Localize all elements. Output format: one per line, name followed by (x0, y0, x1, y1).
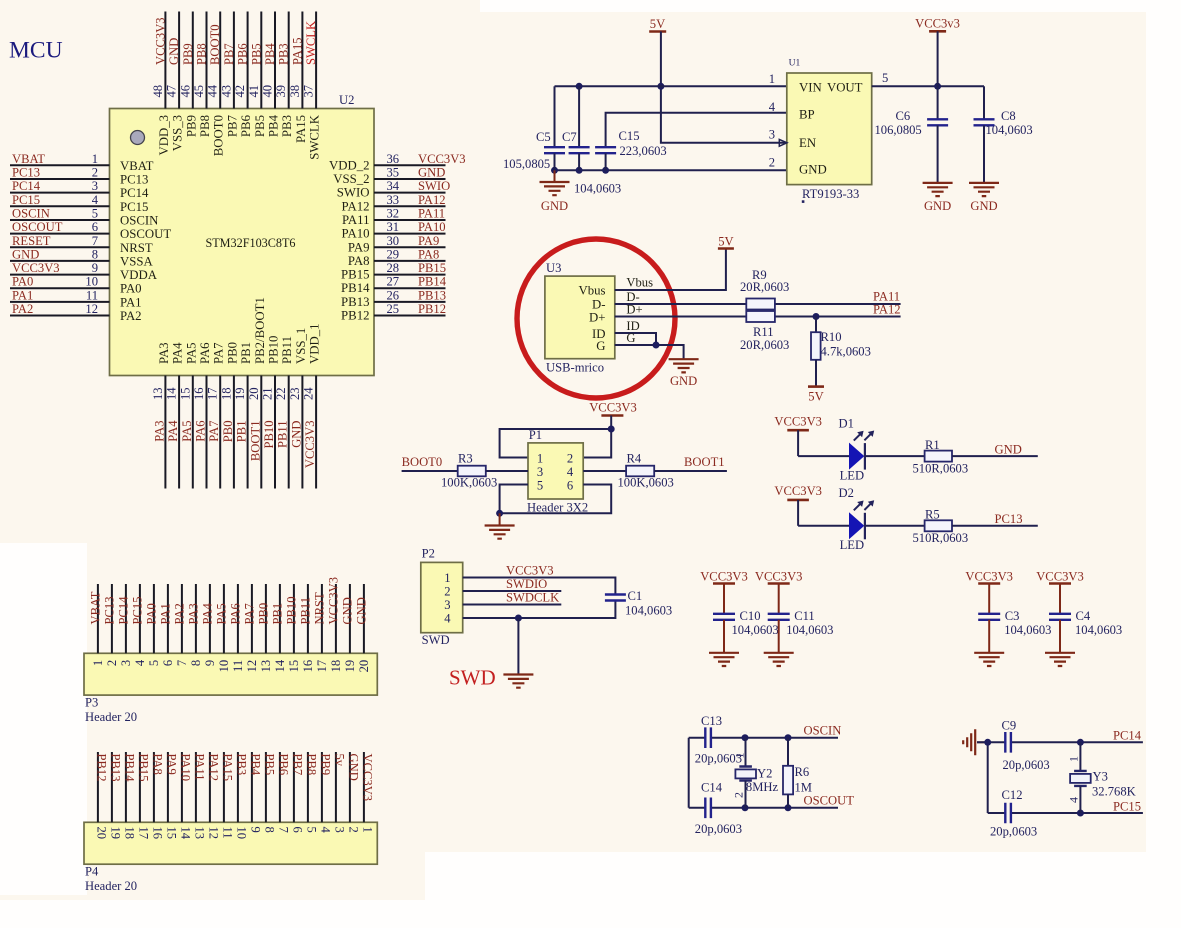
P4 pin 7 wire + net PB6 (276, 752, 290, 833)
svg-text:VBAT: VBAT (88, 591, 102, 624)
wire P2 pin1 VCC3V3 to C1 (463, 578, 616, 595)
svg-text:12: 12 (206, 827, 220, 840)
P3 pin 17 wire + net NRST (312, 584, 329, 672)
svg-text:PB7: PB7 (290, 754, 304, 776)
U2 pin 28 PB15 wire + net PB15 (341, 261, 446, 282)
ground (USB) (669, 359, 699, 388)
svg-text:VCC3V3: VCC3V3 (1036, 570, 1084, 584)
node D+/R10 (813, 313, 820, 320)
svg-text:U1: U1 (789, 59, 801, 69)
svg-text:8MHz: 8MHz (746, 780, 779, 794)
svg-text:PB5: PB5 (262, 754, 276, 776)
svg-text:BOOT0: BOOT0 (402, 455, 443, 469)
svg-text:PA7: PA7 (242, 603, 256, 624)
P3 pin 13 wire + net PB0 (256, 584, 273, 672)
svg-text:PA4: PA4 (171, 342, 185, 364)
svg-text:2: 2 (567, 452, 573, 466)
svg-text:43: 43 (219, 85, 233, 98)
svg-text:C6: C6 (896, 109, 911, 123)
U2 pin 10 PA0 wire + net PA0 (10, 275, 142, 296)
svg-text:PA12: PA12 (342, 199, 370, 213)
svg-text:PA1: PA1 (120, 295, 142, 309)
P4 pin 13 wire + net PA11 (192, 752, 206, 839)
ground (C10) (709, 653, 739, 666)
wire BOOT0 to R3 (402, 470, 458, 472)
svg-text:PC13: PC13 (12, 165, 40, 179)
svg-text:33: 33 (387, 193, 400, 207)
svg-text:C10: C10 (740, 609, 761, 623)
svg-text:4: 4 (567, 465, 574, 479)
svg-text:PB15: PB15 (341, 268, 369, 282)
svg-text:G: G (626, 331, 635, 345)
U2 pin 15 PA5 wire + net PA5 (178, 342, 198, 488)
svg-text:PA6: PA6 (194, 421, 208, 442)
U2 pin 13 PA3 wire + net PA3 (151, 342, 171, 488)
svg-text:PB9: PB9 (181, 43, 195, 65)
svg-text:VCC3V3: VCC3V3 (418, 152, 466, 166)
svg-text:LED: LED (840, 469, 864, 483)
P3 pin 10 wire + net PA5 (214, 584, 231, 672)
svg-text:R11: R11 (753, 325, 774, 339)
svg-text:104,0603: 104,0603 (574, 182, 621, 196)
P4 pin 9 wire + net PB4 (248, 752, 262, 833)
wire BP (pin4) (606, 113, 787, 147)
ground (P2) (503, 675, 533, 688)
svg-text:7: 7 (276, 827, 290, 833)
svg-text:R1: R1 (925, 438, 940, 452)
svg-text:PA4: PA4 (200, 603, 214, 625)
svg-text:PB0: PB0 (221, 421, 235, 443)
ground under C5 (540, 170, 570, 213)
wire 5V to VIN and EN (661, 32, 787, 143)
U2 pin 2 PC13 wire + net PC13 (10, 165, 148, 186)
svg-text:5V: 5V (718, 235, 733, 249)
svg-text:P3: P3 (85, 696, 98, 710)
power VCC3V3 symbol (D2) (774, 484, 822, 526)
svg-text:G: G (596, 339, 605, 353)
wire Vbus (615, 249, 726, 291)
svg-text:3: 3 (537, 465, 543, 479)
svg-text:15: 15 (178, 387, 192, 400)
svg-text:OSCIN: OSCIN (120, 213, 158, 227)
U2 pin 44 BOOT0 wire + net BOOT0 (206, 12, 226, 157)
wire R4 to BOOT1 (654, 470, 727, 472)
svg-text:PA5: PA5 (214, 603, 228, 624)
svg-text:GND: GND (670, 374, 697, 388)
U2 pin 12 PA2 wire + net PA2 (10, 302, 142, 323)
power 5V symbol (649, 17, 666, 32)
svg-text:GND: GND (970, 199, 997, 213)
svg-text:PB4: PB4 (267, 114, 281, 137)
capacitor C6 (875, 86, 949, 183)
svg-text:PA11: PA11 (192, 754, 206, 781)
svg-text:104,0603: 104,0603 (986, 123, 1033, 137)
svg-text:19: 19 (108, 827, 122, 840)
U2 pin 38 PA15 wire + net PA15 (288, 12, 308, 143)
P4 pin 12 wire + net PA12 (206, 752, 220, 839)
svg-text:BOOT0: BOOT0 (212, 115, 226, 156)
svg-text:44: 44 (206, 84, 220, 97)
capacitor C12 (990, 788, 1037, 838)
svg-text:4.7k,0603: 4.7k,0603 (821, 345, 871, 359)
svg-text:PA10: PA10 (418, 220, 446, 234)
crystal Y3 32.768K (1067, 742, 1136, 813)
power 5V symbol (R10) (808, 387, 824, 404)
P3 pin 1 wire + net VBAT (88, 584, 105, 666)
node Y3 left (984, 739, 991, 746)
wire R5 to PC13 (952, 525, 1038, 527)
svg-text:PB3: PB3 (234, 754, 248, 776)
svg-text:VDD_1: VDD_1 (308, 323, 322, 364)
svg-text:PA12: PA12 (206, 754, 220, 782)
svg-text:PB1: PB1 (270, 603, 284, 625)
svg-text:GND: GND (289, 421, 303, 448)
svg-text:SWD: SWD (449, 666, 496, 690)
wire SWDIO (463, 590, 562, 592)
svg-text:29: 29 (387, 247, 400, 261)
svg-text:35: 35 (387, 165, 400, 179)
node C15 bottom (602, 167, 609, 174)
svg-text:PB15: PB15 (418, 261, 446, 275)
svg-text:PB12: PB12 (418, 302, 446, 316)
wire OSCOUT bottom rail (689, 807, 706, 809)
wire D1 to R1 (865, 455, 925, 457)
svg-text:PA0: PA0 (144, 603, 158, 624)
U2 pin 46 PB9 wire + net PB9 (178, 12, 198, 138)
svg-text:EN: EN (799, 136, 816, 150)
svg-text:7: 7 (175, 660, 189, 666)
svg-text:SWD: SWD (422, 633, 450, 647)
svg-text:4: 4 (769, 100, 776, 114)
P3 pin 18 wire + net VCC3V3 (326, 577, 343, 672)
svg-text:PB12: PB12 (341, 309, 369, 323)
P4 pin 15 wire + net PA9 (164, 752, 178, 839)
svg-text:PA0: PA0 (12, 275, 33, 289)
svg-text:GND: GND (340, 597, 354, 624)
svg-text:USB-mrico: USB-mrico (546, 361, 604, 375)
P3 pin 4 wire + net PC15 (130, 584, 147, 666)
U2 pin 11 PA1 wire + net PA1 (10, 288, 142, 309)
U2 pin 21 PB10 wire + net PB10 (261, 336, 281, 489)
svg-text:VCC3V3: VCC3V3 (755, 570, 803, 584)
power VCC3V3 symbol (C4) (1036, 570, 1084, 584)
led D2 (839, 486, 875, 552)
svg-text:16: 16 (301, 660, 315, 673)
capacitor C11 (768, 584, 834, 653)
svg-text:PC13: PC13 (102, 597, 116, 625)
svg-text:D2: D2 (839, 486, 854, 500)
svg-text:Vbus: Vbus (626, 275, 653, 289)
wire junction to ground (517, 618, 519, 675)
P3 pin 7 wire + net PA2 (172, 584, 189, 666)
svg-text:NRST: NRST (120, 241, 153, 255)
svg-text:RESET: RESET (12, 234, 51, 248)
svg-text:VSS_1: VSS_1 (294, 328, 308, 364)
svg-text:P4: P4 (85, 865, 99, 879)
capacitor C5 (503, 86, 565, 171)
U2 pin 24 VDD_1 wire + net VCC3V3 (302, 323, 322, 488)
svg-text:PB6: PB6 (276, 754, 290, 776)
svg-text:1M: 1M (795, 781, 813, 795)
svg-text:5V: 5V (808, 390, 823, 404)
U2 pin 17 PA7 wire + net PA7 (206, 342, 226, 489)
U2 pin 6 OSCOUT wire + net OSCOUT (10, 220, 171, 241)
P4 pin 20 wire + net PB12 (94, 752, 108, 839)
svg-text:14: 14 (273, 659, 287, 672)
svg-text:P2: P2 (422, 547, 435, 561)
svg-text:GND: GND (354, 597, 368, 624)
svg-text:SWCLK: SWCLK (304, 21, 318, 65)
resistor R11 (740, 311, 789, 352)
svg-text:C1: C1 (628, 589, 643, 603)
svg-text:PB6: PB6 (239, 114, 253, 137)
svg-text:U3: U3 (546, 261, 561, 275)
wire R3 to P1 pin3 (486, 470, 528, 472)
node R6 top (785, 734, 792, 741)
P3 pin 20 wire + net GND (354, 584, 371, 672)
wire D2 to R5 (865, 525, 925, 527)
svg-text:R6: R6 (795, 765, 810, 779)
svg-text:C12: C12 (1002, 788, 1023, 802)
svg-text:D+: D+ (589, 310, 605, 324)
svg-text:GND: GND (12, 247, 39, 261)
svg-text:9: 9 (203, 660, 217, 666)
svg-text:223,0603: 223,0603 (620, 144, 667, 158)
svg-text:4: 4 (92, 193, 99, 207)
svg-text:Vbus: Vbus (578, 283, 605, 297)
P3 pin 11 wire + net PA6 (228, 584, 245, 672)
svg-text:PA3: PA3 (152, 421, 166, 442)
capacitor C8 (974, 86, 1033, 183)
P4 pin 14 wire + net PA10 (178, 752, 192, 840)
P4 pin 17 wire + net PB15 (136, 752, 150, 839)
svg-text:PA2: PA2 (120, 309, 142, 323)
U2 pin 34 SWIO wire + net SWIO (337, 179, 450, 200)
svg-text:GND: GND (799, 163, 827, 177)
svg-text:PA8: PA8 (418, 247, 439, 261)
svg-text:LED: LED (840, 538, 864, 552)
node Y3 top (1077, 739, 1084, 746)
svg-text:PB13: PB13 (418, 288, 446, 302)
wire ID (615, 333, 656, 345)
svg-text:PC15: PC15 (12, 193, 40, 207)
svg-text:PB5: PB5 (249, 43, 263, 65)
svg-text:PA7: PA7 (207, 421, 221, 442)
svg-text:VBAT: VBAT (120, 159, 154, 173)
svg-text:PB14: PB14 (122, 754, 136, 783)
ground (P1) (485, 513, 515, 538)
svg-text:NRST: NRST (312, 592, 326, 624)
svg-text:VCC3V3: VCC3V3 (506, 563, 554, 577)
svg-text:11: 11 (220, 827, 234, 839)
U2 pin 19 PB1 wire + net PB1 (233, 342, 253, 489)
U2 pin 8 VSSA wire + net GND (10, 247, 153, 268)
U2 pin 32 PA11 wire + net PA11 (342, 206, 446, 227)
svg-text:9: 9 (248, 827, 262, 833)
svg-text:27: 27 (387, 275, 400, 289)
node P1 gnd junction (496, 510, 503, 517)
svg-text:PA9: PA9 (418, 234, 439, 248)
svg-text:8: 8 (262, 827, 276, 833)
P3 pin 12 wire + net PA7 (242, 584, 259, 672)
svg-text:VSS_3: VSS_3 (171, 115, 185, 151)
svg-text:VCC3V3: VCC3V3 (12, 261, 60, 275)
capacitor C3 (978, 584, 1051, 653)
svg-text:9: 9 (92, 261, 98, 275)
svg-text:40: 40 (261, 85, 275, 98)
svg-text:PA12: PA12 (418, 193, 446, 207)
svg-text:15: 15 (164, 827, 178, 840)
svg-text:1: 1 (92, 152, 98, 166)
svg-text:VCC3V3: VCC3V3 (326, 577, 340, 625)
P4 pin 18 wire + net PB14 (122, 752, 136, 839)
svg-text:17: 17 (136, 827, 150, 840)
svg-text:PB13: PB13 (108, 754, 122, 782)
U2 pin 40 PB4 wire + net PB4 (261, 12, 281, 138)
svg-text:C11: C11 (794, 609, 815, 623)
svg-text:28: 28 (387, 261, 400, 275)
P3 pin 2 wire + net PC13 (102, 584, 119, 666)
svg-text:PA15: PA15 (294, 115, 308, 143)
svg-text:13: 13 (151, 387, 165, 400)
svg-text:PA15: PA15 (290, 37, 304, 65)
svg-text:1: 1 (360, 827, 374, 833)
svg-text:14: 14 (178, 827, 192, 840)
wire D- (615, 303, 747, 305)
svg-text:17: 17 (206, 387, 220, 400)
svg-text:3: 3 (119, 660, 133, 666)
svg-text:PC15: PC15 (1113, 799, 1141, 813)
wire P1 pin1/pin2 to VCC3V3 (500, 429, 612, 458)
svg-text:8: 8 (92, 247, 98, 261)
svg-text:18: 18 (122, 827, 136, 840)
svg-text:18: 18 (219, 387, 233, 400)
U2 pin 37 SWCLK wire + net SWCLK (302, 12, 322, 160)
svg-text:104,0603: 104,0603 (1075, 623, 1122, 637)
U2 pin 9 VDDA wire + net VCC3V3 (10, 261, 158, 282)
capacitor C7 (562, 86, 621, 195)
svg-text:PB1: PB1 (239, 342, 253, 364)
capacitor C4 (1049, 584, 1122, 653)
P4 pin 8 wire + net PB5 (262, 752, 276, 833)
svg-text:GND: GND (167, 38, 181, 65)
node P2 gnd junction (515, 615, 522, 622)
wire OSCIN top rail (689, 737, 706, 739)
wire VIN (pin1) (555, 85, 787, 87)
svg-text:12: 12 (85, 302, 98, 316)
svg-text:PA10: PA10 (178, 754, 192, 782)
svg-text:6: 6 (92, 220, 98, 234)
svg-text:PB14: PB14 (341, 281, 370, 295)
svg-text:20p,0603: 20p,0603 (990, 824, 1037, 838)
node Y2 bottom (742, 804, 749, 811)
svg-text:VCC3V3: VCC3V3 (153, 17, 167, 65)
wire G (615, 345, 684, 359)
svg-text:Y2: Y2 (757, 766, 772, 780)
U2 pin 4 PC15 wire + net PC15 (10, 193, 148, 214)
svg-text:37: 37 (302, 85, 316, 98)
svg-text:PA2: PA2 (172, 603, 186, 624)
svg-text:VSS_2: VSS_2 (333, 172, 369, 186)
wire D+ (615, 316, 747, 318)
svg-text:D+: D+ (626, 302, 642, 316)
P4 pin 4 wire + net PB9 (318, 752, 332, 834)
wire PC14 top rail (977, 741, 1005, 743)
svg-text:26: 26 (387, 288, 400, 302)
node C7 bottom (576, 167, 583, 174)
P3 pin 15 wire + net PB10 (284, 584, 301, 672)
svg-text:PA6: PA6 (198, 342, 212, 364)
svg-text:105,0805: 105,0805 (503, 157, 550, 171)
svg-text:SWDIO: SWDIO (506, 577, 547, 591)
svg-text:5V: 5V (650, 17, 665, 31)
svg-text:13: 13 (259, 660, 273, 673)
node Y3 bottom (1077, 810, 1084, 817)
svg-text:8: 8 (189, 660, 203, 666)
node ID/G (653, 342, 660, 349)
header P3 body (84, 653, 377, 724)
svg-text:2: 2 (92, 165, 98, 179)
P3 pin 3 wire + net PC14 (116, 584, 132, 666)
svg-text:C7: C7 (562, 130, 577, 144)
svg-text:7: 7 (92, 234, 98, 248)
svg-text:SWIO: SWIO (418, 179, 450, 193)
svg-text:16: 16 (150, 827, 164, 840)
svg-text:PA15: PA15 (220, 754, 234, 782)
svg-text:SWIO: SWIO (337, 186, 370, 200)
svg-text:2: 2 (346, 827, 360, 833)
svg-text:PA7: PA7 (212, 342, 226, 364)
U2 pin 41 PB5 wire + net PB5 (247, 12, 267, 138)
svg-text:25: 25 (387, 302, 400, 316)
svg-text:PB5: PB5 (253, 115, 267, 137)
node VOUT/C6 (934, 83, 941, 90)
power VCC3v3 symbol (915, 17, 960, 87)
svg-text:VCC3V3: VCC3V3 (774, 484, 822, 498)
svg-text:30: 30 (387, 234, 400, 248)
svg-text:OSCOUT: OSCOUT (804, 794, 855, 808)
P3 pin 9 wire + net PA4 (200, 584, 217, 666)
U2 pin 39 PB3 wire + net PB3 (274, 12, 294, 138)
svg-text:U2: U2 (339, 93, 354, 107)
svg-text:31: 31 (387, 220, 400, 234)
svg-text:3: 3 (332, 827, 346, 833)
svg-text:PB10: PB10 (284, 597, 298, 625)
svg-text:10: 10 (217, 660, 231, 673)
svg-text:GND: GND (541, 199, 568, 213)
U2 pin 20 PB2/BOOT1 wire + net BOOT1 (247, 297, 267, 488)
svg-text:4: 4 (444, 612, 451, 626)
svg-text:VCC3V3: VCC3V3 (700, 570, 748, 584)
power VCC3V3 symbol (C3) (965, 570, 1013, 584)
svg-text:20p,0603: 20p,0603 (1003, 758, 1050, 772)
P4 pin 10 wire + net PB3 (234, 752, 248, 839)
svg-text:13: 13 (192, 827, 206, 840)
svg-text:10: 10 (234, 827, 248, 840)
svg-text:PB9: PB9 (184, 115, 198, 137)
svg-text:PB8: PB8 (198, 115, 212, 137)
svg-text:104,0603: 104,0603 (786, 623, 833, 637)
svg-text:PB0: PB0 (225, 342, 239, 364)
svg-text:PA10: PA10 (342, 227, 370, 241)
P3 pin 19 wire + net GND (340, 584, 357, 672)
svg-text:PA11: PA11 (418, 206, 445, 220)
ground under C8 (969, 183, 999, 213)
svg-text:11: 11 (231, 660, 245, 672)
svg-text:510R,0603: 510R,0603 (913, 531, 969, 545)
svg-text:PB11: PB11 (276, 421, 290, 449)
svg-text:PB1: PB1 (235, 421, 249, 443)
